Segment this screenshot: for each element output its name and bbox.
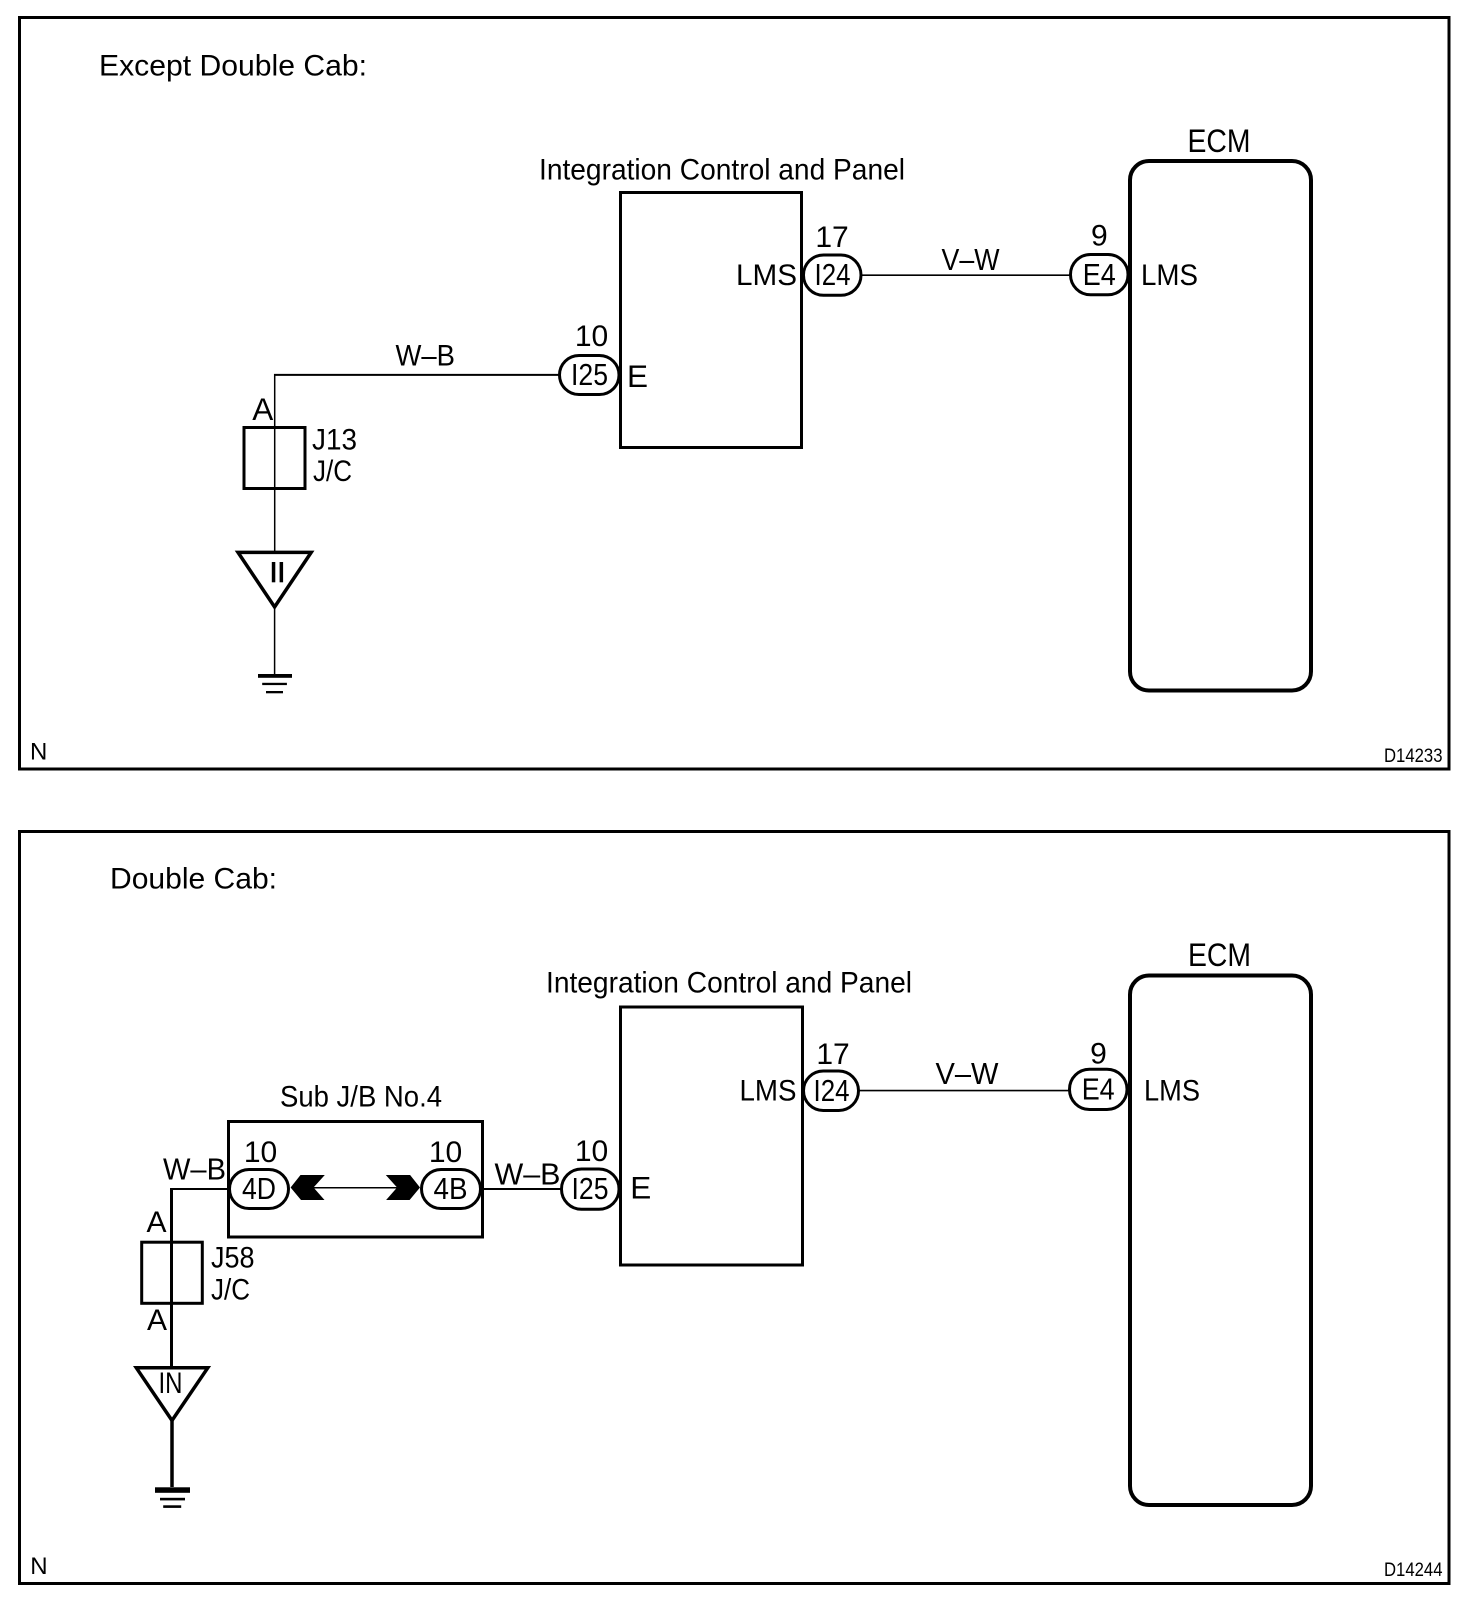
svg-text:E: E xyxy=(630,1170,651,1206)
wire from W-B corner down through J13 to ground triangle II xyxy=(274,374,276,551)
svg-text:Double Cab:: Double Cab: xyxy=(110,863,277,896)
junction connector J13 box xyxy=(244,428,305,489)
connector E4 xyxy=(1071,255,1129,295)
arrowhead pointing left at 4D xyxy=(291,1175,325,1200)
svg-text:V–W: V–W xyxy=(936,1056,1000,1091)
wire from triangle IN to ground symbol xyxy=(170,1420,174,1487)
svg-text:4B: 4B xyxy=(434,1171,468,1206)
svg-text:ECM: ECM xyxy=(1188,937,1251,973)
svg-text:LMS: LMS xyxy=(1141,259,1198,292)
svg-text:E4: E4 xyxy=(1083,257,1116,292)
svg-text:Integration Control and Panel: Integration Control and Panel xyxy=(539,154,905,187)
svg-text:9: 9 xyxy=(1091,220,1108,253)
ground connector triangle II xyxy=(238,552,311,607)
svg-text:10: 10 xyxy=(244,1136,277,1169)
svg-text:D14233: D14233 xyxy=(1384,746,1443,767)
panel frame: Double Cab diagram xyxy=(20,832,1450,1584)
ground code II xyxy=(272,562,276,582)
svg-text:17: 17 xyxy=(815,221,848,254)
wire W-B from junction to I25 xyxy=(274,374,559,376)
svg-text:E4: E4 xyxy=(1082,1072,1115,1107)
component box: ECM (panel 2) xyxy=(1130,976,1311,1506)
svg-text:J13: J13 xyxy=(312,424,357,457)
wire W-B from 4B to I25 (panel 2) xyxy=(480,1188,561,1190)
ground symbol (panel 2) xyxy=(155,1487,190,1493)
svg-text:N: N xyxy=(30,739,47,766)
svg-text:N: N xyxy=(30,1553,47,1580)
svg-text:LMS: LMS xyxy=(1144,1075,1200,1108)
svg-text:10: 10 xyxy=(575,320,608,353)
connector I24 xyxy=(804,255,862,295)
svg-text:LMS: LMS xyxy=(736,259,797,292)
svg-text:V–W: V–W xyxy=(942,242,1001,277)
svg-text:Integration Control and Panel: Integration Control and Panel xyxy=(546,967,912,1000)
svg-text:ECM: ECM xyxy=(1188,123,1251,159)
svg-text:J/C: J/C xyxy=(313,455,352,488)
component box: Integration Control and Panel xyxy=(621,193,802,448)
connector E4 (panel 2) xyxy=(1070,1069,1128,1109)
svg-text:9: 9 xyxy=(1090,1038,1107,1071)
svg-text:J58: J58 xyxy=(211,1242,255,1275)
component box: ECM xyxy=(1130,161,1311,691)
component box: Integration Control and Panel (panel 2) xyxy=(621,1007,803,1265)
svg-text:LMS: LMS xyxy=(740,1075,797,1108)
svg-text:D14244: D14244 xyxy=(1384,1560,1443,1581)
svg-text:W–B: W–B xyxy=(396,340,456,373)
svg-text:Except Double Cab:: Except Double Cab: xyxy=(99,50,367,83)
svg-text:A: A xyxy=(252,391,273,427)
svg-text:I25: I25 xyxy=(572,1171,609,1206)
connector I25 xyxy=(560,356,620,395)
connector 4B xyxy=(422,1170,481,1209)
connector I24 (panel 2) xyxy=(804,1071,859,1111)
svg-text:I24: I24 xyxy=(814,1073,850,1108)
component box: Sub J/B No.4 xyxy=(229,1122,483,1238)
wire V-W from I24 to E4 (panel 2) xyxy=(859,1090,1069,1092)
junction connector J58 box xyxy=(142,1242,203,1303)
svg-text:I25: I25 xyxy=(571,357,608,392)
wire V-W from I24 to E4 xyxy=(861,274,1070,276)
svg-text:10: 10 xyxy=(429,1136,462,1169)
panel frame: Except Double Cab diagram xyxy=(20,18,1450,770)
wire inside J58 xyxy=(170,1242,173,1304)
connector I25 (panel 2) xyxy=(562,1169,620,1209)
wire from corner down through J58 to ground triangle IN xyxy=(170,1188,173,1367)
svg-text:10: 10 xyxy=(575,1135,608,1168)
ground connector triangle IN xyxy=(136,1368,208,1421)
ground symbol xyxy=(258,674,292,678)
arrowhead pointing right at 4B xyxy=(386,1175,420,1200)
connector 4D xyxy=(230,1170,289,1209)
svg-text:Sub J/B No.4: Sub J/B No.4 xyxy=(280,1081,442,1114)
svg-text:17: 17 xyxy=(816,1038,849,1071)
svg-text:IN: IN xyxy=(159,1367,183,1400)
svg-text:W–B: W–B xyxy=(163,1151,226,1186)
svg-text:J/C: J/C xyxy=(211,1274,250,1307)
wire from junction corner to 4D xyxy=(170,1188,230,1190)
internal link wire between 4D and 4B xyxy=(313,1187,397,1189)
svg-text:A: A xyxy=(147,1304,167,1337)
svg-text:A: A xyxy=(147,1206,167,1239)
svg-text:W–B: W–B xyxy=(495,1157,561,1192)
svg-text:4D: 4D xyxy=(242,1171,276,1206)
wire from triangle II to ground symbol xyxy=(274,608,276,674)
svg-text:E: E xyxy=(627,358,648,394)
svg-text:I24: I24 xyxy=(815,257,851,292)
